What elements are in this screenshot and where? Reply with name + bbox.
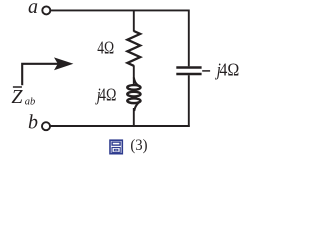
node a (terminal circle) (42, 6, 50, 14)
wire middle-top (top wire down to resistor) (133, 10, 135, 32)
svg-text:ab: ab (25, 97, 36, 108)
node b (terminal circle) (42, 122, 50, 130)
caption 圖 (3) (110, 137, 148, 155)
impedance arrow Zab (22, 57, 73, 85)
inductor L1 (coil, 3 loops) (127, 78, 140, 112)
wire middle-bottom (inductor down to bottom wire) (133, 108, 135, 126)
svg-text:4Ω: 4Ω (99, 86, 116, 105)
resistor R1 (4Ω zigzag) (127, 31, 140, 66)
wire middle-mid (resistor to inductor) (133, 65, 135, 84)
wire right-top (top corner down to capacitor) (188, 10, 190, 67)
svg-text:4Ω: 4Ω (219, 60, 239, 80)
label Z̄ab (11, 86, 35, 108)
svg-text:Z: Z (11, 86, 23, 108)
svg-text:b: b (28, 111, 38, 133)
capacitor C1 (176, 68, 201, 75)
wire right-bottom (capacitor down to bottom corner) (188, 75, 190, 127)
svg-text:4Ω: 4Ω (97, 39, 114, 58)
wire top (51, 9, 189, 11)
value label -j4Ω (202, 59, 239, 79)
svg-text:(3): (3) (130, 137, 147, 155)
wire bottom (50, 125, 190, 127)
value label j4Ω (95, 86, 116, 105)
svg-text:a: a (28, 0, 38, 18)
